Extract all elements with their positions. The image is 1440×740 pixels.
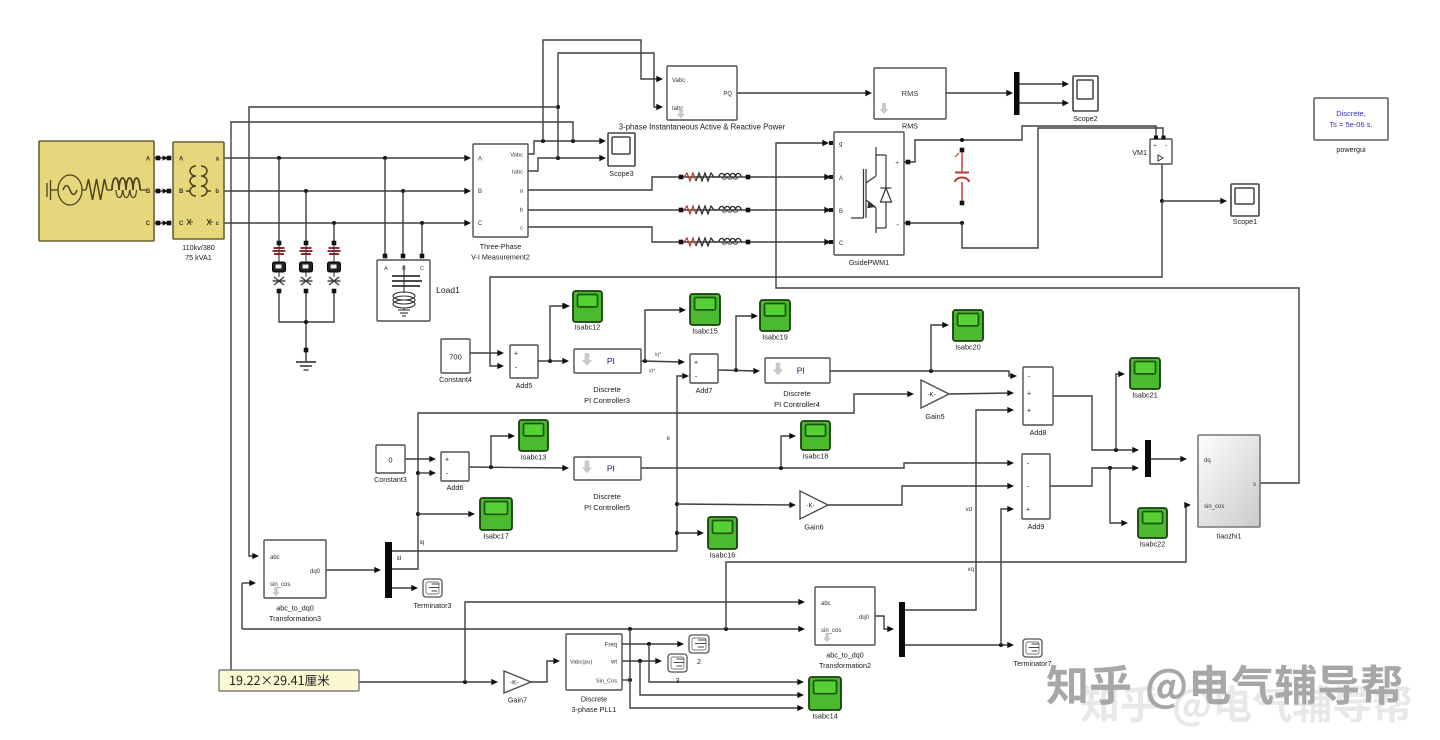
wire: Vabc feedback to left vertical bbox=[231, 122, 573, 682]
svg-text:Add9: Add9 bbox=[1028, 522, 1045, 531]
wire: source A to transformer A bbox=[154, 157, 171, 159]
wire: Transformation2 dq0 to demux2 bbox=[875, 616, 891, 629]
Terminator3 bbox=[423, 579, 442, 597]
wire: Constant3 0 to Add6 plus input bbox=[405, 458, 433, 460]
svg-text:700: 700 bbox=[449, 353, 462, 362]
Terminator 3 bbox=[668, 654, 687, 672]
svg-text:Scope2: Scope2 bbox=[1073, 114, 1097, 123]
Add5 sum block bbox=[510, 345, 538, 378]
node: Vabc branch junctions bbox=[541, 139, 545, 143]
green display Isabc17 bbox=[480, 498, 512, 530]
Add7 sum block bbox=[690, 354, 718, 383]
svg-text:-K-: -K- bbox=[928, 391, 936, 398]
Add9 sum block bbox=[1022, 454, 1050, 519]
wire: phase A bus from transformer a to V-I A bbox=[224, 157, 468, 159]
svg-text:sin_cos: sin_cos bbox=[1204, 504, 1224, 510]
Scope3 bbox=[608, 133, 635, 166]
wire: branch up to Isabc19 scope bbox=[736, 316, 755, 370]
Discrete PI Controller5 bbox=[574, 457, 641, 480]
green display Isabc15 bbox=[690, 294, 720, 325]
wire: V-I b output through RL branch to GsidePWM B bbox=[528, 209, 829, 211]
Gain7 gain block bbox=[504, 671, 531, 693]
svg-text:PQ: PQ bbox=[723, 92, 732, 98]
svg-text:RMS: RMS bbox=[902, 89, 919, 98]
green display Isabc12 bbox=[573, 291, 602, 322]
Discrete PI Controller3 bbox=[574, 349, 641, 373]
wire: GsidePWM + terminal to DC bus top bbox=[904, 126, 1156, 162]
svg-text:Iabc: Iabc bbox=[512, 170, 523, 176]
three-phase source block bbox=[39, 141, 154, 241]
demux1 after Transformation3 bbox=[385, 542, 392, 598]
svg-text:C: C bbox=[478, 221, 483, 227]
svg-text:id*: id* bbox=[649, 369, 656, 375]
wire: Gain7 output to PLL Vabc input bbox=[531, 661, 557, 682]
svg-text:Isabc16: Isabc16 bbox=[710, 551, 736, 560]
VM1 voltage measurement block bbox=[1150, 139, 1172, 164]
svg-text:dq: dq bbox=[1204, 458, 1211, 464]
svg-text:+: + bbox=[1153, 143, 1156, 149]
green display Isabc20 bbox=[953, 310, 983, 341]
svg-text:Add8: Add8 bbox=[1030, 428, 1047, 437]
svg-text:powergui: powergui bbox=[1336, 145, 1366, 154]
wire: demux to Scope2 input 1 bbox=[1019, 83, 1066, 85]
node: capacitor bottom junction bbox=[960, 221, 964, 225]
wire: branch to Isabc17 scope bbox=[418, 513, 472, 515]
DC link capacitor C1 (red) bbox=[960, 148, 965, 153]
svg-text:Add7: Add7 bbox=[696, 386, 713, 395]
wire: PI Controller5 output to Add9 input 1 bbox=[641, 463, 1011, 468]
wire: branch up to Isabc21 scope bbox=[1116, 374, 1122, 450]
wire: branch up to Isabc20 scope bbox=[931, 325, 946, 371]
abc_to_dq0 Transformation2 block bbox=[815, 587, 875, 645]
svg-text:-K-: -K- bbox=[807, 502, 815, 509]
wire: shunt branch B drop bbox=[305, 191, 307, 241]
wire: tiaozhi1 s output feedback to GsidePWM g input bbox=[776, 143, 1299, 483]
wire: Gain5 output to Add8 input 2 bbox=[949, 393, 1011, 394]
abc_to_dq0 Transformation3 block bbox=[264, 540, 326, 598]
wire: Add6 output to Discrete PI Controller5 bbox=[469, 467, 566, 468]
transformer 110kv/380 75 kVA1 bbox=[173, 142, 224, 239]
svg-text:Discrete: Discrete bbox=[783, 389, 811, 398]
wire: Sin_Cos to Isabc14 input 3 bbox=[630, 680, 801, 708]
wire: phase C bus from transformer c to V-I C bbox=[224, 222, 468, 224]
Discrete PI Controller4 bbox=[765, 358, 830, 383]
svg-text:Three-Phase: Three-Phase bbox=[480, 242, 522, 251]
wire: Load1 phase C drop bbox=[421, 223, 423, 258]
svg-text:Scope1: Scope1 bbox=[1233, 217, 1257, 226]
wire: branch to Gain6 bbox=[677, 504, 793, 505]
wire: V-I a output through RL branch to GsidePWM A bbox=[528, 177, 829, 190]
svg-text:Isabc21: Isabc21 bbox=[1132, 391, 1158, 400]
svg-text:A: A bbox=[839, 176, 843, 182]
svg-text:PI: PI bbox=[797, 366, 805, 376]
svg-text:b: b bbox=[520, 208, 523, 214]
svg-text:+: + bbox=[514, 350, 518, 357]
svg-text:id: id bbox=[397, 556, 402, 562]
svg-text:b: b bbox=[215, 189, 219, 195]
svg-text:Isabc14: Isabc14 bbox=[812, 712, 838, 721]
svg-text:dq0: dq0 bbox=[859, 615, 870, 621]
svg-text:Constant3: Constant3 bbox=[374, 475, 407, 484]
svg-text:B: B bbox=[839, 209, 843, 215]
wire: RMS output to demux bbox=[946, 92, 1011, 94]
wire: sin_cos distribution line bbox=[242, 582, 253, 584]
svg-text:PI: PI bbox=[607, 356, 615, 366]
green display Isabc16 bbox=[708, 517, 737, 549]
wire: demux to Scope2 input 2 bbox=[1019, 102, 1066, 104]
svg-text:Isabc22: Isabc22 bbox=[1140, 540, 1166, 549]
svg-text:abc: abc bbox=[821, 601, 831, 607]
Gain5 gain block bbox=[921, 380, 949, 408]
svg-text:dq0: dq0 bbox=[310, 569, 321, 575]
wire: Iabc measurement to Scope3 input 2 bbox=[528, 158, 604, 171]
wire: PQ output to RMS input bbox=[737, 92, 869, 94]
RL filter branch phase A (resistor + inductor) bbox=[679, 175, 684, 180]
wire: PLL Sin_Cos output to junction bbox=[622, 679, 630, 681]
green display Isabc13 bbox=[519, 420, 548, 451]
wire: common node to ground bbox=[305, 292, 307, 348]
wire: Add9 output to mux input 2 bbox=[1050, 468, 1136, 486]
svg-text:3: 3 bbox=[676, 676, 680, 685]
wire: PLL Freq output bbox=[622, 643, 681, 645]
wire: PLL wt output bbox=[622, 660, 659, 662]
Scope1 bbox=[1231, 184, 1259, 216]
svg-text:-: - bbox=[896, 220, 899, 229]
svg-text:Discrete: Discrete bbox=[593, 492, 621, 501]
wire: shunt branch C drop bbox=[333, 223, 335, 241]
wire: branch up to Isabc15 scope bbox=[645, 310, 683, 361]
wire: shunt branches to common node bbox=[279, 292, 334, 322]
svg-text:3-phase PLL1: 3-phase PLL1 bbox=[572, 705, 617, 714]
wire: PI Controller3 output to Add7 plus input bbox=[641, 361, 682, 362]
svg-text:Vabc: Vabc bbox=[510, 153, 523, 159]
svg-text:Isabc20: Isabc20 bbox=[955, 343, 981, 352]
svg-text:Isabc18: Isabc18 bbox=[803, 452, 829, 461]
svg-text:C: C bbox=[146, 221, 151, 227]
svg-text:Gain6: Gain6 bbox=[804, 523, 823, 532]
wire: demux1 id output bbox=[392, 587, 415, 589]
RMS block bbox=[874, 68, 946, 119]
powergui block bbox=[1314, 98, 1388, 140]
svg-text:iq*: iq* bbox=[655, 352, 662, 358]
svg-text:2: 2 bbox=[697, 657, 701, 666]
wire: Constant4 700 to Add5 plus input bbox=[470, 352, 501, 354]
svg-text:Ts = 5e-06 s.: Ts = 5e-06 s. bbox=[1329, 120, 1372, 129]
wire: branch to Add6 minus input bbox=[418, 472, 433, 474]
svg-text:iq: iq bbox=[420, 540, 425, 546]
svg-text:Gain5: Gain5 bbox=[925, 412, 944, 421]
node: junctions on phase buses bbox=[277, 156, 281, 160]
wire: Add7 output to Discrete PI Controller4 bbox=[718, 370, 757, 371]
svg-text:110kv/380: 110kv/380 bbox=[182, 243, 215, 252]
Terminator 2 bbox=[689, 635, 709, 653]
wire: Transformation3 dq0 to demux1 bbox=[326, 569, 378, 571]
svg-text:vd: vd bbox=[966, 507, 972, 513]
wire: mux output to tiaozhi1 dq input bbox=[1151, 458, 1184, 460]
Gain6 gain block bbox=[800, 491, 828, 519]
wire: phase B bus from transformer b to V-I B bbox=[224, 190, 468, 192]
svg-text:B: B bbox=[402, 266, 406, 272]
svg-text:abc_to_dq0: abc_to_dq0 bbox=[826, 651, 864, 660]
svg-text:B: B bbox=[179, 189, 184, 195]
wire: Add5 output to Discrete PI Controller3 bbox=[538, 360, 566, 362]
wire: Vabc measurement to Scope3 input 1 bbox=[528, 141, 604, 154]
annotation 19.22x29.41 cm bbox=[219, 670, 359, 691]
wire: branch up to Isabc12 scope bbox=[550, 306, 566, 361]
wire: Add8 output to mux input 1 bbox=[1053, 396, 1136, 450]
svg-text:Constant4: Constant4 bbox=[439, 375, 472, 384]
svg-text:Terminator7: Terminator7 bbox=[1014, 659, 1052, 668]
svg-text:Gain7: Gain7 bbox=[508, 696, 527, 705]
wire: wt to Isabc14 input 2 bbox=[640, 661, 801, 695]
node: capacitor top junction bbox=[960, 138, 964, 142]
wire: Vabc up to PQ block Vabc input bbox=[543, 40, 660, 141]
svg-text:A: A bbox=[179, 157, 184, 163]
svg-text:+: + bbox=[895, 160, 899, 167]
svg-text:A: A bbox=[478, 157, 482, 163]
svg-text:tiaozhi1: tiaozhi1 bbox=[1217, 532, 1242, 541]
svg-text:+: + bbox=[1026, 506, 1030, 513]
Constant4 block 700 bbox=[441, 339, 470, 373]
svg-text:g: g bbox=[839, 142, 842, 148]
svg-text:PI Controller4: PI Controller4 bbox=[774, 400, 820, 409]
svg-text:Freq: Freq bbox=[605, 643, 617, 649]
svg-text:VM1: VM1 bbox=[1132, 148, 1147, 157]
svg-text:Isabc13: Isabc13 bbox=[521, 453, 547, 462]
wire: branch up to Isabc18 scope bbox=[781, 436, 793, 468]
svg-text:c: c bbox=[520, 226, 523, 232]
node: Iabc branch junction bbox=[556, 156, 560, 160]
svg-text:B: B bbox=[146, 189, 151, 195]
surge arrester branch 2 bbox=[304, 241, 309, 246]
svg-text:PI Controller3: PI Controller3 bbox=[584, 396, 630, 405]
svg-text:Sin_Cos: Sin_Cos bbox=[596, 679, 617, 685]
wire: Gain6 output to Add9 input 2 bbox=[828, 486, 1011, 505]
wire: measured current e vertical to Add7 minus input bbox=[677, 376, 686, 551]
wire: PI Controller4 output to Add8 minus input bbox=[830, 371, 1014, 376]
mux into tiaozhi1 bbox=[1145, 440, 1151, 477]
svg-text:PI Controller5: PI Controller5 bbox=[584, 503, 630, 512]
Discrete 3-phase PLL1 block bbox=[566, 634, 622, 690]
wire: Freq to Isabc14 input 1 bbox=[649, 644, 801, 682]
wire: branch up to Isabc13 scope bbox=[491, 436, 512, 467]
svg-text:Discrete: Discrete bbox=[593, 385, 621, 394]
wire: DC bus bottom to VM1 second terminal bbox=[962, 128, 1163, 248]
green display Isabc19 bbox=[760, 300, 790, 331]
wire: id line from demux up to Add6 minus and Gain5 bbox=[392, 394, 911, 569]
svg-text:75 kVA1: 75 kVA1 bbox=[185, 253, 212, 262]
svg-text:A: A bbox=[384, 266, 388, 272]
Three-Phase V-I Measurement2 block bbox=[473, 144, 528, 237]
wire: V-I c output through RL branch to GsidePWM C bbox=[528, 227, 829, 242]
svg-text:sin_cos: sin_cos bbox=[821, 628, 841, 634]
surge arrester branch 1 bbox=[277, 241, 282, 246]
wire: branch down to Isabc22 scope bbox=[1110, 468, 1125, 523]
Terminator1 bbox=[1023, 639, 1042, 657]
green display Isabc22 bbox=[1138, 508, 1167, 538]
RL filter branch phase B (resistor + inductor) bbox=[679, 208, 684, 213]
svg-text:vq: vq bbox=[968, 567, 974, 573]
svg-text:Transformation2: Transformation2 bbox=[819, 661, 871, 670]
svg-text:B: B bbox=[478, 189, 482, 195]
3-phase Instantaneous Active & Reactive Power block bbox=[667, 66, 737, 120]
node: Iabc left-feedback junction bbox=[556, 105, 560, 109]
wire: demux2 vq output to Terminator and Add9 input 3 bbox=[904, 644, 1011, 646]
wire: Load1 phase B drop bbox=[402, 191, 404, 258]
wire: source B to transformer B bbox=[154, 190, 171, 192]
svg-text:Discrete: Discrete bbox=[581, 695, 607, 704]
svg-text:C: C bbox=[420, 266, 424, 272]
wire: Vabc feedback bottom run to Gain7 bbox=[231, 681, 495, 683]
svg-text:PI: PI bbox=[607, 464, 615, 474]
wire: demux1 iq output to the right bbox=[392, 550, 677, 552]
svg-text:Discrete,: Discrete, bbox=[1336, 109, 1366, 118]
RL filter branch phase C (resistor + inductor) bbox=[679, 240, 684, 245]
svg-text:+: + bbox=[1027, 407, 1031, 414]
svg-text:+: + bbox=[1027, 390, 1031, 397]
svg-text:Isabc17: Isabc17 bbox=[483, 532, 509, 541]
demux to Scope2 bbox=[1014, 72, 1020, 115]
green display Isabc18 bbox=[801, 421, 830, 450]
wire: Iabc feedback to left vertical bbox=[249, 107, 558, 556]
Scope2 bbox=[1073, 76, 1098, 111]
wire: sin_cos branch up to tiaozhi1 sin_cos input bbox=[726, 505, 1188, 629]
svg-text:GsidePWM1: GsidePWM1 bbox=[849, 258, 889, 267]
svg-text:sin_cos: sin_cos bbox=[270, 582, 290, 588]
svg-text:Add5: Add5 bbox=[516, 381, 533, 390]
demux2 after Transformation2 bbox=[899, 602, 905, 657]
wire: Load1 phase A drop bbox=[384, 158, 386, 258]
wire: GsidePWM - terminal to DC bus bottom bbox=[904, 222, 962, 224]
svg-text:s: s bbox=[1253, 482, 1256, 488]
svg-text:A: A bbox=[146, 157, 151, 163]
wire: branch to Isabc16 scope bbox=[677, 532, 701, 534]
wire: shunt branch A drop bbox=[278, 158, 280, 241]
svg-text:Isabc19: Isabc19 bbox=[762, 333, 788, 342]
wire: branch up to Transformation2 abc input bbox=[465, 602, 802, 682]
Constant3 block 0 bbox=[376, 445, 405, 473]
wire: VM1 voltage feedback to Add5 minus input bbox=[490, 201, 1162, 366]
svg-text:V-I Measurement2: V-I Measurement2 bbox=[471, 253, 530, 262]
svg-text:abc_to_dq0: abc_to_dq0 bbox=[276, 604, 314, 613]
svg-text:Vabc(pu): Vabc(pu) bbox=[570, 660, 592, 666]
Add6 sum block bbox=[441, 452, 469, 481]
svg-text:3-phase Instantaneous Active: 3-phase Instantaneous Active & Reactive … bbox=[619, 123, 786, 132]
svg-text:Isabc12: Isabc12 bbox=[575, 323, 601, 332]
svg-text:-K-: -K- bbox=[510, 679, 518, 686]
surge arrester branch 3 bbox=[332, 241, 337, 246]
svg-text:Load1: Load1 bbox=[436, 285, 460, 295]
svg-text:Transformation3: Transformation3 bbox=[269, 614, 321, 623]
svg-text:C: C bbox=[839, 241, 844, 247]
wire: VM1 output to Scope1 bbox=[1161, 164, 1163, 201]
svg-text:0: 0 bbox=[388, 456, 392, 465]
svg-text:Terminator3: Terminator3 bbox=[414, 601, 452, 610]
svg-text:-: - bbox=[1165, 142, 1167, 149]
svg-text:RMS: RMS bbox=[902, 122, 918, 131]
svg-text:Isabc15: Isabc15 bbox=[692, 327, 718, 336]
svg-text:+: + bbox=[694, 359, 698, 366]
wire: Iabc up to PQ block Iabc input bbox=[558, 53, 660, 158]
green display Isabc14 bbox=[809, 677, 841, 710]
svg-text:wt: wt bbox=[610, 660, 617, 666]
wire: demux2 vd output up to Add8 input 3 bbox=[904, 410, 1011, 610]
Add8 sum block bbox=[1023, 367, 1053, 425]
svg-text:C: C bbox=[179, 221, 184, 227]
svg-text:+: + bbox=[445, 456, 449, 463]
svg-text:abc: abc bbox=[270, 555, 280, 561]
svg-text:Vabc: Vabc bbox=[672, 78, 685, 84]
svg-text:Scope3: Scope3 bbox=[609, 169, 633, 178]
Load1 block bbox=[377, 260, 430, 321]
watermark zhihu bbox=[1081, 685, 1117, 722]
green display Isabc21 bbox=[1130, 358, 1160, 389]
GsidePWM1 universal bridge block bbox=[834, 132, 904, 255]
ground symbol bbox=[305, 352, 307, 361]
wire: source C to transformer C bbox=[154, 222, 171, 224]
svg-text:Add6: Add6 bbox=[447, 483, 464, 492]
